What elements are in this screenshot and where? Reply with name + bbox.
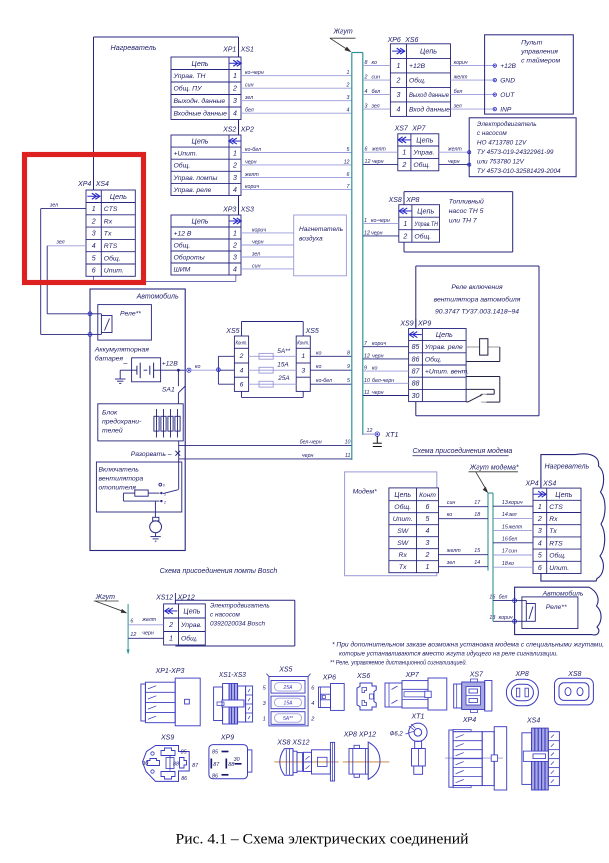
red highlight rectangle around XP4/XS4 xyxy=(25,155,144,283)
svg-text:+Uпит. вент.: +Uпит. вент. xyxy=(425,369,469,376)
svg-text:Входные данные: Входные данные xyxy=(174,110,228,118)
svg-text:1: 1 xyxy=(347,70,350,76)
svg-text:черн: черн xyxy=(372,353,384,359)
wire 11 черн harness to XS9 xyxy=(363,390,409,396)
svg-text:25А: 25А xyxy=(277,375,289,382)
panel terminal INP xyxy=(493,106,512,113)
svg-text:телей: телей xyxy=(102,427,123,435)
svg-text:1: 1 xyxy=(233,73,237,80)
wire 12 harness to XT1 xyxy=(363,428,375,434)
svg-text:Выходн. данные: Выходн. данные xyxy=(174,97,226,105)
svg-text:6: 6 xyxy=(92,268,96,275)
wire зел XP4 pin1 CTS to relay xyxy=(41,203,90,335)
svg-text:8: 8 xyxy=(365,60,368,66)
wire 3 зел XP1 to harness xyxy=(241,95,352,101)
svg-text:1: 1 xyxy=(426,564,430,571)
svg-text:Конт: Конт xyxy=(419,492,436,499)
svg-text:НО 4713780 12V: НО 4713780 12V xyxy=(477,140,527,147)
car blob Автомобиль (modem hookup) xyxy=(515,587,601,635)
svg-text:корич: корич xyxy=(454,60,468,66)
connector XP6/XS6 xyxy=(387,37,451,116)
svg-text:Цепь: Цепь xyxy=(420,47,437,56)
svg-text:5: 5 xyxy=(92,255,96,262)
svg-text:12: 12 xyxy=(365,159,371,165)
svg-text:бел: бел xyxy=(372,89,381,95)
svg-text:88: 88 xyxy=(173,762,179,768)
wire 7 корич harness to XS9 xyxy=(363,341,409,347)
svg-text:или ТН 7: или ТН 7 xyxy=(449,218,477,225)
relay contact symbol xyxy=(466,377,500,403)
svg-text:10: 10 xyxy=(364,378,370,384)
svg-text:Цепь: Цепь xyxy=(394,492,411,499)
svg-text:+12В: +12В xyxy=(409,63,426,70)
svg-text:Общ.: Общ. xyxy=(414,232,431,240)
svg-text:4: 4 xyxy=(347,108,350,114)
connector drawing XP8/XP12 pair xyxy=(343,732,390,780)
svg-text:син: син xyxy=(245,83,254,89)
svg-text:16: 16 xyxy=(489,594,495,600)
svg-text:син: син xyxy=(509,549,518,555)
svg-text:6: 6 xyxy=(426,504,430,511)
svg-text:бел-черн: бел-черн xyxy=(300,439,322,445)
svg-text:ко-черн: ко-черн xyxy=(371,218,390,224)
connector XS7/XP7 xyxy=(394,126,439,171)
svg-text:12: 12 xyxy=(367,428,373,434)
svg-text:1: 1 xyxy=(364,218,367,224)
svg-text:Общ.: Общ. xyxy=(181,635,198,643)
svg-text:14: 14 xyxy=(474,560,480,566)
svg-text:2: 2 xyxy=(401,162,406,169)
svg-text:XS8 XS12: XS8 XS12 xyxy=(276,740,309,747)
svg-text:XS4: XS4 xyxy=(542,480,556,487)
connector drawing XP7 xyxy=(385,672,447,710)
svg-text:Общ.: Общ. xyxy=(549,552,566,560)
svg-text:25А: 25А xyxy=(283,685,294,691)
svg-text:Общ.: Общ. xyxy=(174,241,191,249)
connector XS9/XP9 xyxy=(399,319,469,402)
svg-text:син: син xyxy=(252,263,261,269)
svg-text:XP4: XP4 xyxy=(524,480,538,487)
svg-text:Rx: Rx xyxy=(104,218,113,225)
svg-text:с таймером: с таймером xyxy=(521,57,560,65)
wire 12 черн pump harness to XS12 xyxy=(128,631,164,639)
svg-text:XS6: XS6 xyxy=(404,37,418,44)
svg-text:XP1-XP3: XP1-XP3 xyxy=(155,668,185,675)
svg-text:черн: черн xyxy=(371,230,383,236)
svg-text:ТУ 4573-010-32581429-2004: ТУ 4573-010-32581429-2004 xyxy=(477,168,561,175)
wire корич XP3 to air blower xyxy=(241,227,294,233)
svg-text:корич: корич xyxy=(372,341,386,347)
svg-text:XS9: XS9 xyxy=(160,735,174,742)
svg-text:Жгут: Жгут xyxy=(333,29,353,36)
svg-text:5: 5 xyxy=(538,553,542,560)
svg-text:ШИМ: ШИМ xyxy=(174,266,191,273)
svg-text:XP9: XP9 xyxy=(220,735,234,742)
svg-text:корич: корич xyxy=(499,615,513,621)
svg-text:XS1-XS3: XS1-XS3 xyxy=(218,672,246,679)
svg-text:* При дополнительном заказе во: * При дополнительном заказе возможна уст… xyxy=(332,640,604,648)
svg-text:2: 2 xyxy=(168,622,173,629)
svg-text:Электродвигатель: Электродвигатель xyxy=(210,602,270,610)
svg-text:2: 2 xyxy=(232,242,237,249)
svg-text:Общ.: Общ. xyxy=(409,77,426,85)
svg-text:вентилятора: вентилятора xyxy=(99,476,144,483)
svg-text:XT1: XT1 xyxy=(411,714,425,721)
svg-text:0392020034 Bosch: 0392020034 Bosch xyxy=(210,621,266,628)
svg-text:1: 1 xyxy=(301,353,305,360)
svg-text:Общ.: Общ. xyxy=(425,355,442,363)
svg-text:предохрани-: предохрани- xyxy=(102,418,142,426)
svg-text:XS12: XS12 xyxy=(155,595,173,602)
connector XP4/XS4 (modem hookup) xyxy=(524,479,581,574)
svg-text:87: 87 xyxy=(412,369,421,376)
wire 12 черн harness to XS9 xyxy=(363,353,409,359)
wire 1 ко-черн harness to XS8 xyxy=(363,218,399,224)
svg-text:Цепь: Цепь xyxy=(436,330,453,339)
svg-text:18: 18 xyxy=(502,561,508,567)
svg-text:CTS: CTS xyxy=(549,504,563,511)
svg-text:SW: SW xyxy=(397,528,409,535)
svg-text:6: 6 xyxy=(347,172,350,178)
svg-text:3: 3 xyxy=(233,98,237,105)
svg-text:6: 6 xyxy=(240,382,244,389)
fan motor symbol xyxy=(150,512,162,541)
wire 5 ко-бел XS5 to harness xyxy=(310,378,352,384)
svg-text:черн: черн xyxy=(142,631,154,637)
svg-text:2: 2 xyxy=(232,163,237,170)
svg-text:3: 3 xyxy=(347,95,350,101)
svg-text:Жгут: Жгут xyxy=(95,594,115,601)
connector drawing XP1-XP3 xyxy=(141,668,200,726)
wire 8 ко harness to XP6 xyxy=(363,60,391,66)
svg-text:1: 1 xyxy=(396,63,400,70)
wire 2 син XP1 to harness xyxy=(241,83,352,89)
wire 16 бел harness to XP4 xyxy=(493,537,533,543)
connector drawing XS5 (fuse holder front) xyxy=(263,667,316,726)
wire 4 бел harness to XP6 xyxy=(363,89,391,95)
svg-text:3: 3 xyxy=(233,254,237,261)
svg-text:син: син xyxy=(372,75,381,81)
svg-text:бел: бел xyxy=(499,594,508,600)
svg-text:2: 2 xyxy=(346,83,350,89)
svg-text:2: 2 xyxy=(232,86,237,93)
modem box Модем* xyxy=(345,472,437,576)
wire 8 ко XS5 to harness xyxy=(310,350,352,356)
svg-text:13: 13 xyxy=(502,500,508,506)
svg-text:2: 2 xyxy=(402,233,407,240)
svg-text:Tx: Tx xyxy=(549,528,557,535)
connector XP4/XS4 (heater service) xyxy=(77,180,135,277)
svg-text:XP7: XP7 xyxy=(405,672,420,679)
svg-text:CTS: CTS xyxy=(104,206,118,213)
svg-text:XT1: XT1 xyxy=(385,432,399,439)
connector drawing XP8 (oval) xyxy=(506,671,538,706)
svg-text:+12В: +12В xyxy=(162,361,179,368)
svg-text:15: 15 xyxy=(474,548,480,554)
wire 3 зел harness to XP6 xyxy=(363,104,391,110)
connector drawing XS1-XS3 xyxy=(214,672,253,724)
svg-text:Цепь: Цепь xyxy=(191,59,208,68)
svg-text:1: 1 xyxy=(169,636,173,643)
relay box Реле** (modem hookup) xyxy=(522,597,578,629)
device box Автомобиль xyxy=(90,289,185,551)
svg-text:Нагреватель: Нагреватель xyxy=(111,43,157,52)
svg-text:ко: ко xyxy=(316,350,322,356)
svg-text:Управ. реле: Управ. реле xyxy=(173,187,212,194)
svg-text:+12В: +12В xyxy=(500,63,516,70)
svg-text:15: 15 xyxy=(502,524,508,530)
harness label Жгут with leader xyxy=(330,29,356,53)
svg-text:черн: черн xyxy=(245,159,257,165)
svg-text:насос ТН 5: насос ТН 5 xyxy=(449,208,484,215)
wire 14 зел harness to XP4 xyxy=(493,512,533,518)
svg-text:желт: желт xyxy=(447,146,462,152)
svg-text:или 753780 12V: или 753780 12V xyxy=(477,158,525,165)
svg-text:черн: черн xyxy=(302,453,314,459)
svg-text:3: 3 xyxy=(426,540,430,547)
wire 12 черн harness to XS7 xyxy=(363,159,398,165)
wire корич XP6 to control panel xyxy=(451,60,495,66)
svg-text:5: 5 xyxy=(347,378,350,384)
wire +12V battery to fuse bracket xyxy=(161,364,219,372)
svg-text:Управ.ТН: Управ.ТН xyxy=(414,221,438,228)
svg-text:Реле**: Реле** xyxy=(120,311,141,318)
svg-text:3: 3 xyxy=(396,92,400,99)
svg-text:Общ.: Общ. xyxy=(104,254,121,262)
svg-text:4: 4 xyxy=(240,368,244,375)
wire син XP3 to air blower xyxy=(241,263,294,269)
svg-text:Жгут модема*: Жгут модема* xyxy=(469,464,519,472)
svg-text:17: 17 xyxy=(474,500,481,506)
relay coil symbol xyxy=(466,339,500,362)
svg-text:1: 1 xyxy=(92,206,96,213)
svg-text:4: 4 xyxy=(365,89,368,95)
svg-text:12: 12 xyxy=(130,632,136,638)
svg-text:Топливный: Топливный xyxy=(449,198,484,206)
svg-text:2: 2 xyxy=(239,353,244,360)
connector table Модем (Цепь/Конт) xyxy=(389,488,439,573)
svg-text:Нагреватель: Нагреватель xyxy=(545,464,590,471)
svg-text:ко: ко xyxy=(509,561,515,567)
svg-text:зел: зел xyxy=(244,95,253,101)
wire 10 бел-черн car to harness xyxy=(179,439,352,445)
svg-text:INP: INP xyxy=(500,106,512,113)
svg-text:зел: зел xyxy=(453,104,462,110)
svg-text:XP8: XP8 xyxy=(515,671,529,678)
connector drawing XP9 (relay) xyxy=(209,735,252,780)
svg-text:Автомобиль: Автомобиль xyxy=(136,293,179,301)
svg-text:черн: черн xyxy=(448,159,460,165)
svg-text:Управ. ТН: Управ. ТН xyxy=(173,73,206,80)
svg-text:желт: желт xyxy=(244,172,259,178)
svg-text:XP3: XP3 xyxy=(222,207,236,214)
svg-text:85: 85 xyxy=(212,750,219,756)
connector drawing XS7 xyxy=(454,672,492,713)
svg-text:30: 30 xyxy=(142,761,148,767)
svg-text:XS6: XS6 xyxy=(356,673,370,680)
svg-text:1: 1 xyxy=(233,151,237,158)
terminal drawing XT1 with Ф6,2 xyxy=(390,714,427,775)
svg-text:XS5: XS5 xyxy=(305,328,319,335)
svg-text:зел: зел xyxy=(446,560,455,566)
svg-text:желт: желт xyxy=(141,617,156,623)
svg-text:+Uпит.: +Uпит. xyxy=(174,151,198,158)
svg-text:Цепь: Цепь xyxy=(191,217,208,226)
svg-text:вентилятора автомобиля: вентилятора автомобиля xyxy=(434,296,521,304)
svg-text:XS5: XS5 xyxy=(278,667,292,674)
svg-text:ко: ко xyxy=(447,512,453,518)
svg-text:4: 4 xyxy=(92,243,96,250)
svg-text:30: 30 xyxy=(412,393,420,400)
svg-text:87: 87 xyxy=(192,763,199,769)
wire 15 желт harness to XP4 xyxy=(493,524,533,530)
fuse 5A xyxy=(249,348,297,359)
svg-text:6: 6 xyxy=(130,618,133,624)
svg-text:с насосом: с насосом xyxy=(477,130,508,137)
panel terminal +12В xyxy=(493,63,516,70)
svg-text:XS1: XS1 xyxy=(240,47,254,54)
connector XS8/XP8 xyxy=(388,196,440,243)
svg-text:Реле включения: Реле включения xyxy=(451,284,503,291)
svg-text:ко: ко xyxy=(372,366,378,372)
svg-text:OUT: OUT xyxy=(500,92,515,99)
svg-text:зел: зел xyxy=(251,252,260,258)
air blower box Нагнетатель воздуха xyxy=(294,215,347,276)
svg-text:6: 6 xyxy=(538,565,542,572)
svg-text:Rx: Rx xyxy=(549,516,558,523)
svg-text:Электродвигатель: Электродвигатель xyxy=(477,120,537,128)
svg-text:3: 3 xyxy=(538,528,542,535)
svg-text:Обороты: Обороты xyxy=(174,253,205,261)
svg-text:зел: зел xyxy=(371,104,380,110)
svg-text:4: 4 xyxy=(233,187,237,194)
harness Жгут (main loom) xyxy=(352,53,363,461)
svg-text:2: 2 xyxy=(364,75,368,81)
harness label Жгут (pump) with leader xyxy=(94,594,128,613)
wire 1 ко-черн XP1 to harness xyxy=(241,70,352,76)
wire 12 черн XS2 to harness xyxy=(241,159,352,165)
svg-text:зел: зел xyxy=(56,240,65,246)
wire 6 желт harness to XS7 xyxy=(363,147,398,153)
svg-text:XP7: XP7 xyxy=(411,126,426,133)
svg-text:зел: зел xyxy=(508,512,517,518)
svg-text:86: 86 xyxy=(181,776,187,782)
wire 17 син modem to harness xyxy=(439,500,489,507)
wire черн XS7 to pump motor xyxy=(439,159,471,166)
svg-text:Вход данные: Вход данные xyxy=(409,106,450,114)
svg-text:XS2: XS2 xyxy=(222,127,236,134)
svg-text:Блок: Блок xyxy=(102,410,118,417)
svg-text:2: 2 xyxy=(395,78,400,85)
svg-text:8: 8 xyxy=(347,350,350,356)
terminal XT1 with ground xyxy=(373,432,399,447)
svg-text:5А**: 5А** xyxy=(277,348,290,355)
svg-text:9: 9 xyxy=(347,364,350,370)
wire 6 желт XS2 to harness xyxy=(241,172,352,178)
panel terminal OUT xyxy=(493,92,515,99)
svg-text:ко: ко xyxy=(195,364,201,370)
svg-text:корич: корич xyxy=(509,500,523,506)
svg-text:11: 11 xyxy=(345,453,351,459)
svg-text:Аккумуляторная: Аккумуляторная xyxy=(94,347,149,354)
svg-text:SW: SW xyxy=(397,540,409,547)
svg-text:ко: ко xyxy=(372,60,378,66)
wire зел XP6 to control panel xyxy=(451,104,495,110)
svg-text:88: 88 xyxy=(412,381,420,388)
connector drawing XS8/XS12 pair xyxy=(274,740,338,782)
svg-text:бел: бел xyxy=(509,537,518,543)
fuse 15A xyxy=(249,361,297,373)
svg-text:желт: желт xyxy=(371,147,386,153)
svg-text:с насосом: с насосом xyxy=(210,612,241,619)
wire бел XP6 to control panel xyxy=(451,89,495,95)
svg-text:XS5: XS5 xyxy=(225,328,239,335)
svg-text:батарея: батарея xyxy=(95,355,124,363)
svg-text:2: 2 xyxy=(537,516,542,523)
svg-text:2: 2 xyxy=(163,500,166,504)
svg-text:XP4: XP4 xyxy=(462,717,476,724)
svg-text:90.3747 ТУ37.003.1418–94: 90.3747 ТУ37.003.1418–94 xyxy=(435,309,519,316)
svg-text:0: 0 xyxy=(163,484,165,488)
svg-text:1: 1 xyxy=(538,504,542,511)
svg-text:3: 3 xyxy=(301,368,305,375)
fuse holder XS5 pin tables xyxy=(234,336,248,391)
svg-text:XS7: XS7 xyxy=(469,672,484,679)
wire 18 ко harness to XP4 xyxy=(493,561,533,567)
wire 4 бел XP1 to harness xyxy=(241,108,352,114)
heading Схема присоединения модема xyxy=(413,447,513,456)
wire зел XP3 to air blower xyxy=(241,252,294,258)
heater fan switch box Включатель вентилятора отопителя xyxy=(96,462,181,512)
svg-text:Управ.: Управ. xyxy=(180,622,202,629)
note text asterisks xyxy=(330,640,604,666)
svg-text:1: 1 xyxy=(233,230,237,237)
svg-text:управления: управления xyxy=(520,49,558,56)
wire 17 син harness to XP4 xyxy=(493,549,533,555)
svg-text:4: 4 xyxy=(233,111,237,118)
svg-text:5А**: 5А** xyxy=(283,716,294,722)
svg-text:XP6: XP6 xyxy=(387,37,401,44)
svg-text:5: 5 xyxy=(426,516,430,523)
svg-text:Включатель: Включатель xyxy=(99,467,140,474)
pump motor box Электродвигатель с насосом xyxy=(469,118,576,177)
svg-text:15А: 15А xyxy=(277,361,288,368)
wire черн XP3 to air blower xyxy=(241,240,294,246)
svg-text:бел-черн: бел-черн xyxy=(372,378,394,384)
svg-text:14: 14 xyxy=(502,512,508,518)
heater blob Нагреватель (modem hookup) xyxy=(541,454,605,581)
wire 13 корич harness to XP4 xyxy=(493,500,533,506)
svg-text:XP9: XP9 xyxy=(417,321,431,328)
svg-text:RTS: RTS xyxy=(549,540,563,547)
wire 13 корич harness to relay xyxy=(489,615,526,623)
svg-text:Схема присоединения помпы Bosc: Схема присоединения помпы Bosch xyxy=(160,567,278,575)
svg-text:Цепь: Цепь xyxy=(191,137,208,146)
svg-text:ко-бел: ко-бел xyxy=(245,147,261,153)
fan relay box Реле включения вентилятора автомобиля xyxy=(416,266,539,416)
svg-text:корич: корич xyxy=(245,184,259,190)
svg-text:Цепь: Цепь xyxy=(416,136,433,145)
svg-text:30: 30 xyxy=(234,757,240,763)
svg-text:15А: 15А xyxy=(284,700,294,706)
svg-text:черн: черн xyxy=(252,240,264,246)
svg-text:XP2: XP2 xyxy=(240,127,254,134)
svg-text:Модем*: Модем* xyxy=(353,488,378,496)
XS5 feed bracket pins 2-4-6 xyxy=(217,356,235,384)
svg-text:XS4: XS4 xyxy=(95,181,109,188)
connector XS12/XP12 xyxy=(155,593,205,645)
connector drawing XS4 (6-pin) xyxy=(522,718,560,791)
